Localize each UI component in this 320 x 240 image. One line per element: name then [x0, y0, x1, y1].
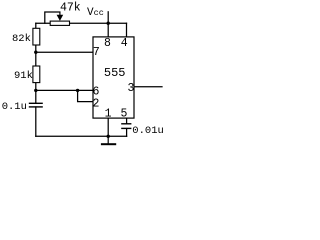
ground [101, 136, 116, 144]
svg-text:0.01u: 0.01u [132, 125, 164, 137]
wire pin 7 [36, 51, 93, 53]
svg-text:2: 2 [93, 97, 100, 110]
node pin2 branch junction [76, 89, 79, 92]
wire bottom rail [36, 135, 127, 137]
svg-text:Vcc: Vcc [87, 7, 104, 19]
node pin6 junction [34, 89, 37, 92]
wire pin 1 drop [107, 118, 109, 136]
wire pin 5 drop [126, 118, 128, 124]
svg-text:7: 7 [93, 46, 100, 59]
wire pin 2 branch [78, 90, 93, 101]
wire left bus [35, 23, 37, 136]
wire pin 6 [36, 89, 93, 91]
wire pin 8 drop [107, 23, 109, 37]
node Vcc junction [107, 22, 110, 25]
svg-text:555: 555 [104, 66, 126, 80]
wire pin 3 lead [134, 86, 162, 88]
resistor R2 91k body [33, 66, 40, 83]
svg-text:3: 3 [128, 82, 135, 95]
wire Vcc stub [107, 12, 109, 23]
wire top rail Vcc [36, 22, 127, 24]
svg-text:4: 4 [121, 37, 128, 50]
svg-text:47k: 47k [60, 2, 81, 15]
wire C2 bottom stub [126, 129, 128, 137]
wire pot wiper loop [45, 12, 60, 23]
potentiometer RP 47k body [50, 12, 69, 25]
capacitor C1 0.1u plates [29, 103, 43, 107]
resistor R1 82k body [33, 28, 40, 45]
svg-text:5: 5 [121, 107, 128, 120]
capacitor C2 0.01u plates [121, 124, 131, 129]
svg-text:1: 1 [105, 107, 112, 120]
svg-text:0.1u: 0.1u [2, 101, 27, 113]
node ground junction [107, 135, 110, 138]
svg-text:82k: 82k [12, 33, 31, 45]
node pin7 junction [34, 51, 37, 54]
wire pin 4 drop [126, 23, 128, 37]
svg-text:8: 8 [104, 37, 111, 50]
IC U1 555 box [93, 37, 134, 118]
svg-text:91k: 91k [14, 70, 33, 82]
